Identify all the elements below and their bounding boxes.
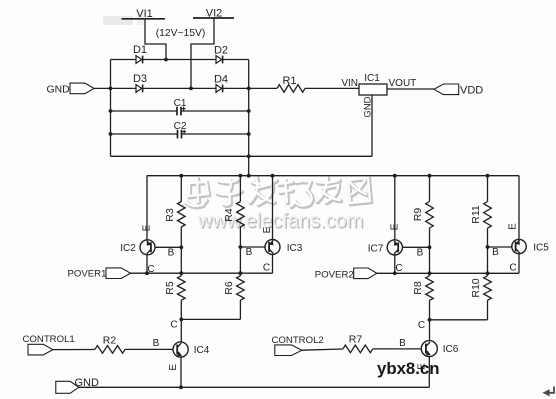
pin label C of IC6 bbox=[418, 320, 425, 331]
wire R7 to IC6 base bbox=[373, 348, 422, 350]
pin label E of IC3 (rotated) bbox=[262, 226, 273, 233]
terminal VI1 label bbox=[136, 8, 153, 20]
wire R9-R8 column middle bbox=[429, 228, 431, 276]
wire D1-D2 top line bbox=[111, 59, 249, 61]
svg-text:R1: R1 bbox=[282, 75, 296, 87]
port GND (bottom) bbox=[56, 377, 99, 394]
svg-text:E: E bbox=[142, 224, 153, 231]
wire IC2 emitter bbox=[146, 176, 148, 240]
diode D4 bbox=[214, 74, 228, 93]
node junction VI1 on top line bbox=[164, 58, 168, 62]
node POVER1 R5 bbox=[179, 271, 183, 275]
transistor IC5 bbox=[512, 239, 549, 253]
transistor IC4 bbox=[173, 342, 210, 357]
svg-text:R5: R5 bbox=[164, 281, 176, 295]
svg-text:IC4: IC4 bbox=[194, 345, 210, 356]
pin label C of IC2 bbox=[147, 264, 154, 275]
pin label E of IC2 (rotated) bbox=[142, 224, 153, 231]
svg-text:R7: R7 bbox=[349, 334, 363, 346]
svg-text:D1: D1 bbox=[133, 44, 147, 56]
wire IC4 emitter bbox=[180, 357, 182, 387]
wire IC3 emitter bbox=[272, 176, 274, 240]
node GND rail IC4 emitter bbox=[179, 385, 183, 389]
wire POVER1 line bbox=[131, 272, 273, 274]
wire POVER2 line bbox=[377, 272, 519, 274]
pin label B of IC2 bbox=[168, 247, 175, 258]
pin label B of IC4 bbox=[153, 338, 160, 349]
transistor IC2 bbox=[120, 240, 155, 255]
svg-text:(12V~15V): (12V~15V) bbox=[156, 28, 206, 39]
node C2 right bbox=[247, 132, 251, 136]
pin label VIN bbox=[341, 78, 358, 89]
wire IC2 base bbox=[155, 246, 181, 248]
pin label VOUT bbox=[389, 78, 417, 89]
node R11 base junction bbox=[486, 245, 490, 249]
wire C1 line bbox=[111, 110, 249, 112]
svg-text:IC2: IC2 bbox=[120, 243, 136, 254]
node POVER2 R10 bbox=[486, 271, 490, 275]
wire IC6 emitter bbox=[428, 357, 430, 388]
svg-text:C2: C2 bbox=[174, 121, 187, 132]
node rail R4 bbox=[239, 174, 243, 178]
resistor R9 bbox=[412, 202, 433, 229]
svg-text:C: C bbox=[170, 320, 177, 331]
svg-text:VIN: VIN bbox=[341, 78, 358, 89]
transistor IC3 bbox=[265, 240, 303, 255]
wire R3 column upper lead bbox=[180, 176, 182, 202]
svg-text:IC3: IC3 bbox=[287, 243, 303, 254]
port CONTROL1 bbox=[23, 334, 75, 355]
svg-text:E: E bbox=[262, 226, 273, 233]
wire GND / D3-D4 line bbox=[94, 87, 359, 89]
svg-text:B: B bbox=[417, 248, 424, 259]
wire R9 column upper lead bbox=[429, 176, 431, 202]
pin label E of IC7 (rotated) bbox=[390, 223, 401, 230]
svg-text:R3: R3 bbox=[164, 208, 176, 222]
svg-text:D2: D2 bbox=[214, 45, 228, 57]
node junction VI2 on D3-D4 line bbox=[189, 87, 193, 91]
node junction right vertical on D3-D4 line bbox=[247, 87, 251, 91]
svg-text:B: B bbox=[153, 338, 160, 349]
pin label B of IC7 bbox=[417, 248, 424, 259]
pin label C of IC5 bbox=[509, 263, 516, 274]
wire VI1 to D1-D2 line bbox=[145, 19, 166, 60]
svg-text:C: C bbox=[263, 262, 270, 273]
svg-text:R2: R2 bbox=[103, 335, 117, 347]
resistor R4 bbox=[223, 202, 244, 228]
svg-text:C: C bbox=[418, 320, 425, 331]
capacitor C2 bbox=[178, 130, 187, 139]
node rail R11 bbox=[486, 174, 490, 178]
svg-text:E: E bbox=[508, 223, 519, 230]
svg-text:ybx8.cn: ybx8.cn bbox=[377, 359, 440, 378]
wire IC7 base bbox=[402, 246, 429, 248]
wire R5-R6 junction link bbox=[181, 318, 240, 320]
wire VOUT to VDD bbox=[387, 88, 434, 90]
pin label C of IC4 bbox=[170, 320, 177, 331]
svg-text:R11: R11 bbox=[470, 205, 482, 224]
pin label C of IC7 bbox=[395, 263, 402, 274]
svg-text:R9: R9 bbox=[412, 208, 424, 222]
resistor R2 bbox=[95, 335, 125, 354]
node C1 left bbox=[109, 109, 113, 113]
wire IC2 collector bbox=[146, 255, 148, 273]
pin label C of IC3 bbox=[263, 262, 270, 273]
wire R5 column lower lead bbox=[180, 300, 182, 342]
port VDD bbox=[434, 84, 483, 97]
node collector junction left bbox=[179, 318, 183, 322]
wire CONTROL2 to R7 bbox=[302, 349, 343, 350]
pin label B of IC3 bbox=[246, 247, 253, 258]
pin label B of IC6 bbox=[399, 338, 406, 349]
node C2 left bbox=[109, 132, 113, 136]
wire VI2 to D3-D4 line bbox=[191, 18, 214, 88]
svg-text:D4: D4 bbox=[214, 74, 228, 86]
svg-text:B: B bbox=[168, 247, 175, 258]
wire IC5 base bbox=[488, 246, 512, 248]
node bottom line crossing bbox=[247, 154, 251, 158]
resistor R1 bbox=[277, 75, 305, 92]
terminal VI2 label bbox=[206, 8, 223, 20]
wire R2 to IC4 base bbox=[125, 348, 173, 350]
svg-text:R8: R8 bbox=[412, 281, 424, 295]
resistor R11 bbox=[470, 202, 491, 229]
port GND (top left) bbox=[47, 83, 95, 95]
node junction left vertical on GND line bbox=[109, 87, 113, 91]
wire R11-R10 column middle bbox=[487, 228, 489, 276]
watermark chinese calligraphy bbox=[186, 176, 371, 207]
node collector junction right bbox=[428, 318, 432, 322]
node rail IC7 emitter bbox=[393, 174, 397, 178]
port CONTROL2 bbox=[272, 335, 324, 355]
resistor R5 bbox=[164, 276, 185, 300]
svg-text:R6: R6 bbox=[223, 281, 235, 295]
gray scan smudge near VI1 bbox=[103, 11, 145, 25]
voltage note (12V~15V) bbox=[156, 28, 206, 39]
wire R6 column lower lead bbox=[239, 300, 241, 319]
resistor R3 bbox=[164, 202, 185, 228]
wire IC7 emitter bbox=[394, 176, 396, 240]
port POVER2 bbox=[315, 268, 377, 280]
svg-text:IC1: IC1 bbox=[364, 73, 380, 84]
capacitor C1 bbox=[177, 107, 186, 116]
svg-text:POVER1: POVER1 bbox=[68, 269, 107, 280]
svg-text:GND: GND bbox=[47, 84, 70, 95]
svg-text:IC6: IC6 bbox=[443, 344, 459, 355]
diode D3 bbox=[133, 73, 147, 92]
svg-text:VOUT: VOUT bbox=[389, 78, 417, 89]
regulator IC1 body bbox=[359, 84, 387, 95]
svg-text:B: B bbox=[492, 247, 499, 258]
wire R8-R10 junction link bbox=[430, 319, 488, 321]
node R3 base junction bbox=[179, 245, 183, 249]
node POVER2 R8 bbox=[428, 271, 432, 275]
svg-text:CONTROL1: CONTROL1 bbox=[23, 334, 75, 345]
transistor IC6 bbox=[421, 341, 458, 357]
capacitor C1 label bbox=[174, 98, 187, 109]
wire IC7 collector bbox=[394, 255, 396, 273]
wire IC5 emitter bbox=[518, 176, 520, 240]
resistor R8 bbox=[412, 276, 433, 301]
wire R8 column lower lead bbox=[429, 300, 431, 340]
pin label B of IC5 bbox=[492, 247, 499, 258]
wire R3-R5 column middle bbox=[180, 227, 182, 276]
wire top rail of driver section bbox=[147, 175, 520, 177]
terminal VI1 bar bbox=[122, 18, 166, 20]
resistor R7 bbox=[343, 334, 373, 353]
watermark return-arrow glyph bbox=[543, 387, 555, 397]
pin label E of IC4 (rotated) bbox=[168, 364, 179, 371]
regulator IC1 label bbox=[364, 73, 380, 84]
wire R4-R6 column middle bbox=[239, 227, 241, 276]
wire R11 column upper lead bbox=[487, 176, 489, 202]
wire IC1 GND pin down bbox=[371, 95, 373, 156]
wire bottom GND rail bbox=[79, 386, 430, 388]
svg-text:POVER2: POVER2 bbox=[315, 269, 354, 280]
svg-text:C: C bbox=[509, 263, 516, 274]
svg-text:R4: R4 bbox=[223, 208, 235, 222]
node rail feed bbox=[247, 174, 251, 178]
transistor IC7 bbox=[368, 240, 403, 255]
pin label E of IC5 (rotated) bbox=[508, 223, 519, 230]
svg-text:IC7: IC7 bbox=[368, 243, 384, 254]
wire right vertical of input box bbox=[248, 60, 250, 176]
svg-text:IC5: IC5 bbox=[533, 243, 549, 254]
node rail IC3 emitter bbox=[271, 174, 275, 178]
svg-text:R10: R10 bbox=[470, 278, 482, 297]
node POVER1 R6 bbox=[239, 271, 243, 275]
wire IC3 base bbox=[240, 246, 264, 248]
diode D1 bbox=[133, 44, 147, 63]
node POVER1 IC2 collector bbox=[145, 271, 149, 275]
watermark www.elecfans.com bbox=[197, 210, 365, 233]
wire left vertical of input box bbox=[110, 60, 112, 157]
wire bottom line of input box bbox=[111, 155, 373, 157]
node rail R3 bbox=[179, 174, 183, 178]
svg-text:VDD: VDD bbox=[460, 85, 483, 97]
terminal VI2 bar bbox=[193, 17, 234, 19]
node C1 right bbox=[247, 109, 251, 113]
wire IC5 collector bbox=[518, 254, 520, 274]
svg-text:E: E bbox=[390, 223, 401, 230]
pin label E of IC6 (rotated) bbox=[417, 363, 428, 370]
svg-text:B: B bbox=[399, 338, 406, 349]
svg-text:E: E bbox=[168, 364, 179, 371]
svg-text:D3: D3 bbox=[133, 73, 147, 85]
watermark ybx8.cn bbox=[377, 359, 440, 378]
node POVER2 IC7 collector bbox=[393, 271, 397, 275]
pin label GND of IC1 (rotated) bbox=[363, 96, 374, 117]
wire R10 column lower lead bbox=[487, 300, 489, 320]
wire C2 line bbox=[111, 133, 249, 135]
diode D2 bbox=[214, 45, 228, 64]
node rail R9 bbox=[428, 174, 432, 178]
wire CONTROL1 to R2 bbox=[53, 349, 95, 351]
wire R4 column upper lead bbox=[239, 176, 241, 202]
wire IC3 collector bbox=[272, 255, 274, 274]
node R9 base junction bbox=[428, 245, 432, 249]
resistor R10 bbox=[470, 276, 491, 300]
capacitor C2 label bbox=[174, 121, 187, 132]
svg-text:www.elecfans.com: www.elecfans.com bbox=[197, 210, 364, 232]
node R4 base junction bbox=[239, 245, 243, 249]
svg-text:B: B bbox=[246, 247, 253, 258]
port POVER1 bbox=[68, 268, 131, 280]
resistor R6 bbox=[223, 276, 244, 300]
